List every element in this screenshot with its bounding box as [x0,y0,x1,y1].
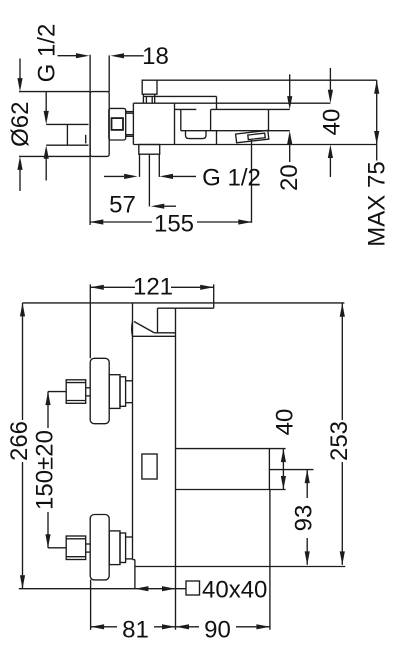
svg-text:81: 81 [122,616,149,643]
svg-text:121: 121 [133,274,173,301]
svg-text:90: 90 [204,616,231,643]
svg-text:40: 40 [319,109,346,136]
svg-text:93: 93 [291,505,318,532]
svg-text:40x40: 40x40 [202,577,267,604]
svg-text:150±20: 150±20 [32,430,59,510]
svg-text:Ø62: Ø62 [7,102,34,147]
svg-text:G 1/2: G 1/2 [34,24,61,83]
svg-text:18: 18 [142,43,169,70]
svg-text:266: 266 [6,421,33,461]
svg-text:253: 253 [326,421,353,461]
svg-text:40: 40 [271,409,298,436]
svg-text:20: 20 [276,164,303,191]
svg-text:155: 155 [154,211,194,238]
svg-text:MAX 75: MAX 75 [364,161,391,246]
svg-text:G 1/2: G 1/2 [202,165,261,192]
svg-text:57: 57 [109,192,136,219]
